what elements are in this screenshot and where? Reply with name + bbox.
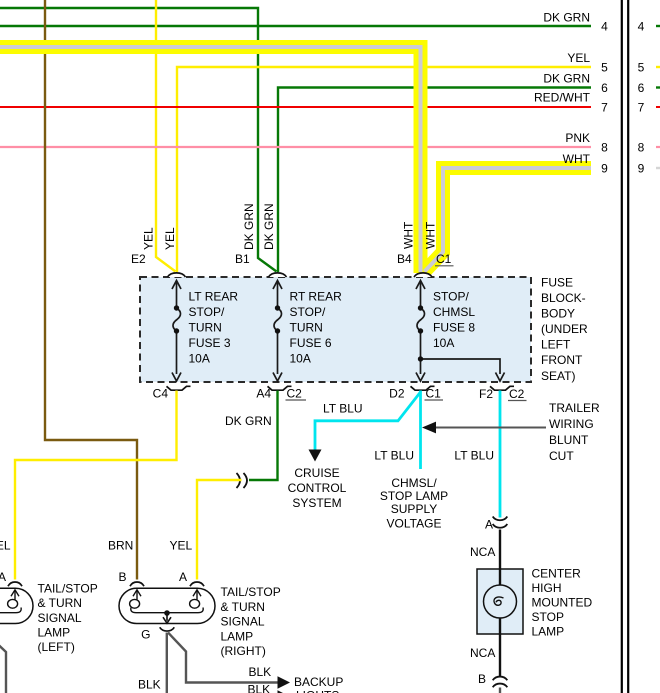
svg-text:BLK: BLK [249,665,272,679]
svg-text:WHT: WHT [402,221,416,249]
svg-text:BLK: BLK [138,678,161,692]
svg-text:E2: E2 [131,252,146,266]
wire LT BLU from F2/C2 [499,391,502,518]
svg-text:TRAILER: TRAILER [549,401,600,415]
svg-text:B: B [118,570,126,584]
svg-text:TURN: TURN [189,321,222,335]
svg-text:A: A [0,570,6,584]
svg-text:DK GRN: DK GRN [543,72,590,86]
connector C (double vertical line) [622,0,628,693]
bulb circle [484,585,517,618]
connector stub YEL pin 5 right [656,66,660,68]
svg-text:SIGNAL: SIGNAL [221,615,265,629]
connector cap at B1 [269,273,287,277]
svg-text:BLOCK-: BLOCK- [541,291,586,305]
connector stub DK GRN pin 4 right [656,25,660,27]
svg-text:DK GRN: DK GRN [262,203,276,250]
fuse RT REAR STOP/TURN FUSE 6 10A [273,281,282,382]
left lamp ground rail [0,608,21,613]
svg-text:STOP/: STOP/ [189,305,225,319]
inline connector A (two cups) [493,517,508,528]
svg-text:YEL: YEL [142,227,156,250]
left lamp filament A [8,590,19,608]
right tail/stop lamp body [119,588,215,623]
svg-text:A: A [485,518,493,532]
connector cup G [160,627,175,631]
svg-text:HIGH: HIGH [532,581,562,595]
wire YEL from top to fuse block E2 [156,0,176,272]
connector stub RED/WHT pin 7 right [656,106,660,108]
svg-text:10A: 10A [290,352,311,366]
svg-text:A: A [179,570,187,584]
svg-text:FUSE 8: FUSE 8 [433,321,475,335]
right lamp down arrow to G [163,613,171,623]
svg-text:LT BLU: LT BLU [374,449,414,463]
connector cap left lamp A [8,582,22,586]
wire DK GRN pin 6 to B1 [278,88,591,273]
svg-text:BLUNT: BLUNT [549,433,589,447]
svg-text:RT REAR: RT REAR [290,290,343,304]
svg-text:STOP: STOP [532,610,564,624]
connector cap right lamp A [190,582,204,586]
svg-text:10A: 10A [433,336,454,350]
svg-text:& TURN: & TURN [221,600,265,614]
svg-text:MOUNTED: MOUNTED [532,596,593,610]
svg-text:(UNDER: (UNDER [541,322,588,336]
node right lamp ground junction [164,610,170,616]
svg-text:C1: C1 [436,252,452,266]
svg-text:5: 5 [638,60,645,74]
svg-text:VOLTAGE: VOLTAGE [387,517,442,531]
svg-text:C2: C2 [287,387,303,401]
svg-text:CUT: CUT [549,449,574,463]
left tail/stop lamp body [0,588,33,623]
svg-text:LAMP: LAMP [38,626,71,640]
arrow trailer wiring to LT BLU wire [422,422,436,434]
svg-text:STOP/: STOP/ [433,290,469,304]
trailer wiring blunt cut wire [436,427,546,429]
svg-text:FUSE: FUSE [541,276,573,290]
svg-text:NCA: NCA [470,646,495,660]
svg-text:B: B [478,672,486,686]
svg-text:CRUISE: CRUISE [294,466,339,480]
svg-text:B1: B1 [235,252,250,266]
svg-text:9: 9 [638,161,645,175]
svg-text:F2: F2 [479,387,493,401]
inline connector B (two caps) [493,677,508,688]
svg-text:CHMSL/: CHMSL/ [391,476,437,490]
svg-text:LAMP: LAMP [221,629,254,643]
svg-text:RED/WHT: RED/WHT [534,91,591,105]
svg-text:PNK: PNK [565,131,590,145]
svg-text:BODY: BODY [541,307,575,321]
svg-text:8: 8 [601,140,608,154]
svg-text:BRN: BRN [108,539,133,553]
wire PNK pin 8 [0,146,591,148]
svg-text:& TURN: & TURN [38,596,82,610]
svg-text:6: 6 [601,81,608,95]
svg-text:8: 8 [638,140,645,154]
highlighted wire WHT to fuse B4 (yellow highlight) [0,47,421,273]
wire YEL from C4 to left lamp A [15,391,177,580]
svg-text:CENTER: CENTER [532,567,582,581]
svg-text:4: 4 [638,19,645,33]
svg-text:CONTROL: CONTROL [288,481,347,495]
wire BRN to right lamp B [45,0,137,580]
svg-text:WHT: WHT [424,221,438,249]
connector notch at A4/C2 [268,386,292,390]
right lamp filament A [190,590,201,608]
connector notch at F2/C2 [490,386,514,390]
svg-text:(RIGHT): (RIGHT) [221,644,266,658]
svg-text:CHMSL: CHMSL [433,305,475,319]
arrow to backup lights second (clipped) [278,690,291,693]
bulb filament [494,597,504,605]
svg-text:YEL: YEL [170,539,193,553]
wire inside lamp box top [499,569,501,585]
svg-text:NCA: NCA [470,545,495,559]
svg-text:DK GRN: DK GRN [225,414,272,428]
svg-text:LIGHTS: LIGHTS [296,689,339,693]
svg-text:4: 4 [601,19,608,33]
fuse block body (dashed box, under left front seat) [140,277,531,382]
wire BLK right lamp ground down [166,633,168,693]
svg-text:G: G [141,628,150,642]
svg-text:WIRING: WIRING [549,417,594,431]
wire NCA to CHMSL lamp [499,530,501,570]
svg-text:YEL: YEL [163,227,177,250]
fuse STOP/CHMSL FUSE 8 10A [416,281,505,382]
wire DK GRN pin 4 [0,25,591,27]
wire DK GRN from pin4 branch to fuse block B1 [0,8,277,272]
svg-text:B4: B4 [397,252,412,266]
wire YEL pin 5 to E2 [177,67,591,272]
svg-text:TAIL/STOP: TAIL/STOP [38,582,98,596]
wire BLK left lamp ground [0,633,6,693]
svg-text:STOP/: STOP/ [290,305,326,319]
svg-text:FUSE 3: FUSE 3 [189,336,231,350]
svg-text:C4: C4 [153,387,169,401]
connector stub WHT pin 9 right [656,167,660,169]
wire ground below B [499,688,501,693]
connector cap right lamp B [130,582,144,586]
center high mounted stop lamp box [477,569,523,634]
svg-text:FUSE 6: FUSE 6 [290,336,332,350]
wire YEL from splice to right lamp A [197,480,242,580]
svg-text:5: 5 [601,60,608,74]
connector cap at B4/C1 [414,273,432,277]
highlighted wire WHT pin 9 to C1 (yellow highlight) [425,168,592,272]
wire RED/WHT pin 7 [0,106,591,108]
svg-text:WHT: WHT [563,152,591,166]
wire WHT core to B4 [0,47,421,272]
svg-text:BACKUP: BACKUP [294,675,343,689]
connector cap at E2 [168,273,186,277]
svg-text:BLK: BLK [248,683,271,693]
arrow to backup lights [278,676,291,688]
connector notch at C4 [167,386,191,390]
wire LT BLU branch to cruise control [315,392,421,450]
right lamp filament B [130,590,141,608]
svg-text:YEL: YEL [0,539,11,553]
svg-text:LT BLU: LT BLU [323,402,363,416]
svg-text:DK GRN: DK GRN [242,203,256,250]
svg-text:LT BLU: LT BLU [454,449,494,463]
svg-text:9: 9 [601,161,608,175]
svg-text:TURN: TURN [290,321,323,335]
svg-text:10A: 10A [189,352,210,366]
node junction fuse 8 output [418,356,423,361]
inline splice connector (two arcs) [237,473,248,488]
svg-text:SEAT): SEAT) [541,369,575,383]
svg-text:YEL: YEL [567,51,590,65]
svg-text:C2: C2 [509,387,525,401]
svg-text:LEFT: LEFT [541,338,571,352]
wire LT BLU from D2/C1 [419,391,422,470]
svg-text:SIGNAL: SIGNAL [38,611,82,625]
wire inside lamp box bottom [499,618,501,634]
svg-text:SUPPLY: SUPPLY [391,502,437,516]
wire BLK to backup lights [168,633,278,683]
svg-text:C1: C1 [426,387,442,401]
wire WHT core pin9 to C1 [425,168,592,272]
svg-text:LAMP: LAMP [532,625,565,639]
wire NCA below lamp [499,634,501,676]
svg-text:6: 6 [638,81,645,95]
connector stub DK GRN pin 6 right [656,86,660,88]
connector notch at D2/C1 [411,386,435,390]
svg-text:(LEFT): (LEFT) [38,640,75,654]
svg-text:7: 7 [601,100,608,114]
svg-text:A4: A4 [256,387,271,401]
svg-text:FRONT: FRONT [541,353,583,367]
arrow to cruise control system [309,450,322,462]
svg-text:STOP LAMP: STOP LAMP [380,489,448,503]
svg-text:SYSTEM: SYSTEM [292,496,341,510]
fuse LT REAR STOP/TURN FUSE 3 10A [172,281,181,382]
connector stub PNK pin 8 right [656,146,660,148]
svg-text:TAIL/STOP: TAIL/STOP [221,585,281,599]
wire DK GRN from A4/C2 to splice [249,391,278,481]
svg-text:LT REAR: LT REAR [189,290,239,304]
right lamp ground rail [131,608,203,613]
svg-text:7: 7 [638,100,645,114]
svg-text:DK GRN: DK GRN [543,11,590,25]
svg-text:D2: D2 [389,387,405,401]
